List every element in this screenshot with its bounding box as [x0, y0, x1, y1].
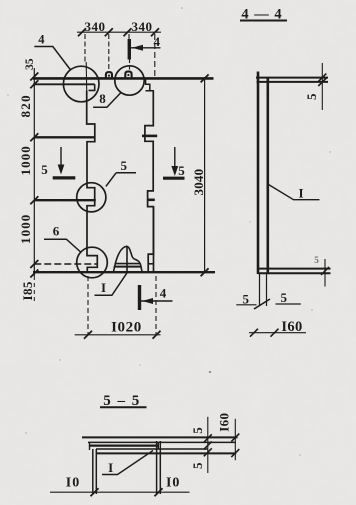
svg-text:4 — 4: 4 — 4	[241, 6, 282, 22]
svg-text:I0: I0	[166, 476, 180, 491]
svg-text:5: 5	[120, 158, 127, 173]
svg-text:4: 4	[160, 286, 167, 301]
svg-text:5: 5	[314, 256, 319, 266]
svg-text:35: 35	[24, 58, 36, 70]
svg-text:1000: 1000	[18, 214, 33, 244]
svg-text:5 – 5: 5 – 5	[103, 393, 141, 409]
svg-text:1000: 1000	[18, 145, 33, 175]
svg-text:4: 4	[38, 33, 45, 47]
svg-text:I60: I60	[217, 413, 232, 432]
svg-text:5: 5	[280, 290, 287, 305]
svg-text:340: 340	[85, 19, 106, 34]
svg-text:I: I	[108, 460, 113, 475]
svg-text:820: 820	[18, 94, 33, 117]
svg-text:8: 8	[99, 91, 106, 106]
svg-text:3040: 3040	[191, 169, 206, 196]
svg-text:5: 5	[41, 162, 48, 177]
svg-text:I0: I0	[66, 476, 80, 491]
svg-text:I: I	[298, 186, 303, 201]
svg-text:5: 5	[304, 93, 319, 100]
svg-text:I020: I020	[111, 320, 142, 336]
svg-text:340: 340	[132, 19, 153, 34]
svg-text:5: 5	[190, 462, 205, 469]
svg-text:5: 5	[178, 163, 185, 178]
svg-text:4: 4	[154, 34, 161, 49]
svg-text:I: I	[101, 280, 106, 295]
svg-text:I85: I85	[20, 281, 35, 300]
svg-text:5: 5	[190, 427, 205, 434]
svg-text:6: 6	[53, 224, 60, 239]
svg-text:5: 5	[243, 291, 250, 306]
svg-text:I60: I60	[281, 319, 302, 335]
